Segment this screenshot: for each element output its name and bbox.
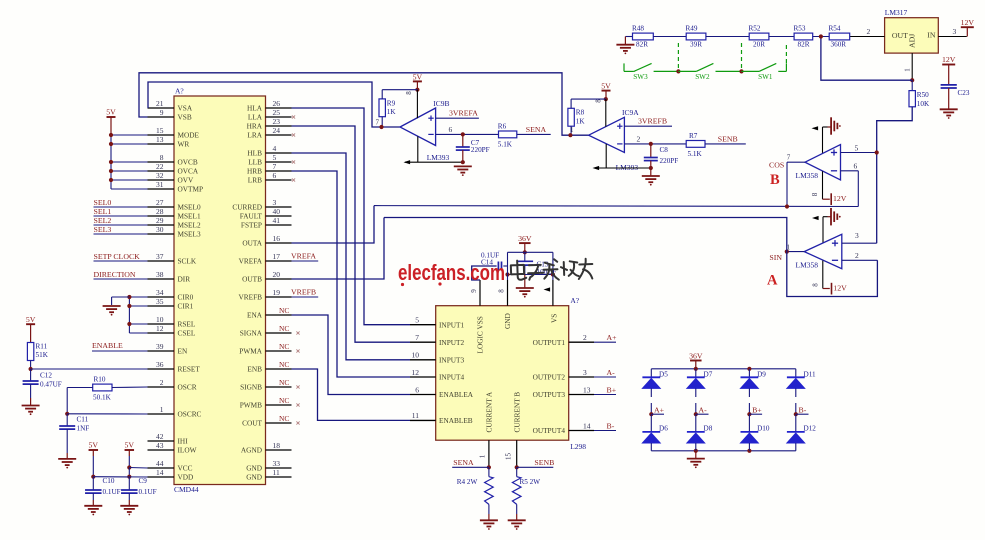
svg-text:220PF: 220PF — [660, 157, 679, 165]
svg-text:B+: B+ — [607, 385, 617, 394]
node B+ — [747, 405, 762, 416]
svg-text:35: 35 — [156, 297, 164, 306]
svg-text:R7: R7 — [689, 132, 698, 140]
svg-text:11: 11 — [412, 411, 419, 420]
wire 3VREFB from IC9A non-inverting input — [624, 117, 672, 127]
resistor R6 5.1K — [498, 122, 517, 148]
svg-text:NC: NC — [279, 324, 289, 333]
svg-text:INPUT1: INPUT1 — [439, 320, 464, 329]
svg-text:NC: NC — [279, 306, 289, 315]
regulator U? LM317 — [885, 8, 939, 53]
svg-text:22: 22 — [156, 162, 164, 171]
net label ENABLE with wire to EN — [92, 341, 148, 351]
svg-text:VSB: VSB — [178, 113, 192, 122]
svg-text:220PF: 220PF — [471, 146, 490, 154]
wire op-amp B non-inverting to R50 node — [841, 143, 879, 154]
svg-text:OVV: OVV — [178, 176, 195, 185]
svg-text:C11: C11 — [77, 416, 89, 424]
svg-text:26: 26 — [273, 99, 281, 108]
svg-text:5.1K: 5.1K — [498, 140, 513, 148]
svg-text:0.1UF: 0.1UF — [103, 488, 121, 496]
svg-text:D9: D9 — [757, 370, 766, 378]
svg-text:R11: R11 — [36, 343, 48, 351]
wire op-amp A output node SIN — [767, 244, 804, 289]
ground arrow above op-amp B — [812, 117, 841, 153]
svg-text:VREFA: VREFA — [239, 257, 263, 266]
wire ENB to ENABLEB — [292, 369, 411, 420]
net label DIRECTION with wire — [94, 270, 148, 279]
wire LM317 OUT pin 2 — [850, 27, 885, 37]
capacitor C13 100UF — [517, 252, 557, 276]
svg-text:31: 31 — [156, 180, 164, 189]
svg-text:12V: 12V — [833, 284, 847, 293]
svg-text:OSCRC: OSCRC — [178, 410, 202, 419]
wire long net OUTB to op-amp A — [384, 218, 877, 297]
switch SW1 — [742, 63, 777, 80]
capacitor C10 0.1UF — [85, 477, 121, 506]
resistor R4 2W sense — [457, 467, 494, 520]
resistor R53 82R — [794, 24, 813, 48]
svg-text:SENA: SENA — [453, 458, 474, 467]
svg-text:360R: 360R — [831, 41, 847, 49]
ground at R48 left end — [616, 37, 634, 55]
power 5V port above R11 — [26, 315, 36, 343]
svg-text:R52: R52 — [749, 24, 761, 32]
svg-text:2: 2 — [867, 27, 871, 36]
resistor R52 20R — [749, 24, 769, 48]
svg-text:VCC: VCC — [178, 464, 193, 473]
wire SENB — [705, 134, 746, 144]
svg-text:OUTPUT4: OUTPUT4 — [533, 426, 566, 435]
diode D9 — [741, 369, 767, 389]
ground for CIR pins — [103, 305, 121, 307]
power -12V at op-amp B — [811, 171, 847, 205]
wire VSB to IC9A inverting input — [139, 73, 589, 135]
svg-text:D7: D7 — [704, 370, 713, 378]
wire switch row seg4 — [716, 69, 744, 73]
dashed link SW2-R49R52 node — [741, 43, 743, 71]
resistor R49 39R — [686, 24, 706, 48]
svg-text:5: 5 — [855, 143, 859, 152]
svg-text:LLB: LLB — [248, 158, 262, 167]
wire IC9B output pin 6 — [436, 125, 499, 137]
L298 top pin names rotated — [476, 313, 559, 353]
svg-text:17: 17 — [273, 252, 281, 261]
svg-text:37: 37 — [156, 252, 164, 261]
capacitor C11 1NF — [59, 414, 89, 459]
svg-text:SIN: SIN — [769, 253, 782, 262]
svg-text:50.1K: 50.1K — [93, 394, 112, 402]
svg-text:DIR: DIR — [178, 275, 191, 284]
node R8 to IC9A output — [568, 133, 572, 137]
svg-text:D10: D10 — [757, 425, 770, 433]
svg-text:NC: NC — [279, 342, 289, 351]
resistor R10 50.1K — [67, 376, 147, 414]
svg-text:7: 7 — [376, 119, 380, 127]
svg-text:LM317: LM317 — [885, 8, 908, 17]
svg-text:OSCR: OSCR — [178, 383, 197, 392]
svg-text:8: 8 — [498, 289, 506, 293]
svg-text:INPUT4: INPUT4 — [439, 373, 464, 382]
svg-text:6: 6 — [415, 385, 419, 394]
svg-text:R50: R50 — [917, 91, 929, 99]
power 5V port above C10 — [89, 441, 99, 479]
ground under L298 rail — [516, 275, 534, 298]
node R9 to IC9B output — [379, 125, 383, 129]
svg-text:5V: 5V — [106, 108, 116, 117]
svg-text:5V: 5V — [601, 82, 611, 91]
wire 36V rail upper — [508, 251, 553, 253]
svg-text:SW1: SW1 — [758, 73, 773, 81]
diode D11 — [787, 369, 816, 389]
wire op-amp B output node COS — [769, 154, 805, 207]
svg-text:A+: A+ — [607, 333, 618, 342]
svg-text:12: 12 — [412, 368, 420, 377]
svg-text:36V: 36V — [689, 351, 703, 360]
wire diode bridge top rail — [651, 367, 796, 371]
wire D5 to node A+ — [650, 388, 652, 414]
wire HRA to INPUT2 — [292, 126, 411, 342]
svg-text:8: 8 — [811, 192, 819, 196]
wire switch row seg2 — [654, 69, 681, 73]
power 5V port top-left — [106, 108, 116, 135]
svg-text:C23: C23 — [958, 89, 970, 97]
op-amp IC9A LM393 — [570, 99, 639, 172]
wire R49-R52 — [706, 36, 749, 38]
svg-text:40: 40 — [273, 207, 281, 216]
svg-text:12V: 12V — [833, 194, 847, 203]
svg-text:R48: R48 — [632, 24, 644, 32]
diode D7 — [687, 369, 713, 389]
svg-text:CIR1: CIR1 — [178, 302, 194, 311]
svg-text:36: 36 — [156, 360, 164, 369]
svg-text:12: 12 — [156, 324, 164, 333]
svg-text:LRB: LRB — [248, 176, 262, 185]
svg-text:7: 7 — [787, 154, 791, 162]
svg-text:OUTB: OUTB — [242, 275, 262, 284]
svg-text:30: 30 — [156, 225, 164, 234]
svg-text:R8: R8 — [576, 109, 585, 117]
wire D11 to node B- — [795, 388, 797, 414]
svg-text:IC9A: IC9A — [622, 108, 639, 117]
svg-text:RSEL: RSEL — [178, 320, 196, 329]
svg-text:CIR0: CIR0 — [178, 293, 194, 302]
ground under C11 — [58, 458, 76, 460]
capacitor C7 220PF — [456, 134, 490, 162]
svg-text:CURRED: CURRED — [232, 203, 262, 212]
svg-text:MSEL2: MSEL2 — [178, 221, 201, 230]
svg-text:42: 42 — [156, 432, 164, 441]
svg-text:5V: 5V — [26, 315, 36, 324]
net label SETP CLOCK with wire — [94, 252, 148, 261]
svg-text:18: 18 — [273, 441, 281, 450]
svg-text:LOGIC VSS: LOGIC VSS — [476, 316, 485, 353]
wire R53-R54 with node to ADJ — [813, 34, 830, 38]
wire SENA — [517, 125, 551, 135]
svg-text:3: 3 — [273, 198, 277, 207]
svg-text:OVCA: OVCA — [178, 167, 199, 176]
diode D5 — [642, 369, 668, 389]
L298 right pins with output net labels — [533, 333, 618, 435]
wire 5V to MODE WR OVCB OVCA OVV OVTMP — [109, 133, 148, 189]
svg-text:6: 6 — [854, 162, 858, 171]
svg-text:9: 9 — [470, 289, 478, 293]
svg-text:ENABLE: ENABLE — [92, 341, 123, 350]
svg-text:2: 2 — [637, 134, 641, 143]
svg-text:27: 27 — [156, 198, 164, 207]
svg-text:D5: D5 — [659, 370, 668, 378]
svg-text:CMD44: CMD44 — [174, 485, 199, 494]
svg-text:8: 8 — [812, 283, 820, 287]
wire VDD rail — [93, 476, 147, 478]
svg-text:21: 21 — [156, 99, 164, 108]
svg-text:D11: D11 — [804, 370, 817, 378]
net label VREFA with wire — [291, 251, 318, 261]
svg-text:C12: C12 — [40, 372, 52, 380]
svg-text:HLB: HLB — [247, 149, 262, 158]
wire D7 to node A- — [695, 388, 697, 414]
power 5V port above C9 — [125, 441, 135, 479]
svg-text:5V: 5V — [125, 441, 135, 450]
svg-text:39: 39 — [156, 342, 164, 351]
svg-text:R6: R6 — [498, 122, 507, 130]
svg-text:ADJ: ADJ — [908, 34, 917, 48]
svg-text:OVCB: OVCB — [178, 158, 198, 167]
wire LM317 IN pin 3 to 12V — [938, 27, 967, 37]
dashed link SW1-R52R53 node — [785, 45, 787, 63]
svg-text:VSA: VSA — [178, 104, 193, 113]
resistor R9 1K — [379, 90, 417, 127]
svg-text:R53: R53 — [794, 24, 806, 32]
wire R11 to RESET pin — [29, 361, 148, 372]
svg-text:PWMA: PWMA — [239, 347, 262, 356]
wire VSA to IC9B inverting input — [148, 82, 400, 127]
svg-text:MSEL1: MSEL1 — [178, 212, 201, 221]
svg-text:R5 2W: R5 2W — [520, 478, 541, 486]
svg-text:INPUT3: INPUT3 — [439, 355, 464, 364]
svg-text:33: 33 — [273, 459, 281, 468]
svg-text:IHI: IHI — [178, 437, 189, 446]
svg-text:D12: D12 — [804, 425, 817, 433]
ground under R5 — [508, 519, 526, 521]
svg-text:SEL0: SEL0 — [94, 198, 112, 207]
svg-text:1K: 1K — [576, 117, 586, 125]
power 5V port at IC9A — [595, 82, 612, 103]
svg-text:SCLK: SCLK — [178, 257, 197, 266]
wire VS pin riser — [544, 252, 553, 305]
wire CURRENT B to sense node — [505, 440, 519, 469]
ground under diode bridge — [687, 451, 705, 468]
svg-text:DIRECTION: DIRECTION — [94, 270, 136, 279]
ground under C10 — [84, 505, 102, 507]
svg-text:1: 1 — [904, 68, 912, 72]
net label VREFB with wire — [291, 287, 318, 297]
wire ADJ feedback to R53 R54 node — [821, 37, 912, 81]
power 5V port at IC9B — [405, 73, 423, 95]
ground under C7 — [454, 165, 472, 167]
svg-text:8: 8 — [160, 153, 164, 162]
diode D10 — [741, 414, 770, 451]
svg-text:LM358: LM358 — [796, 171, 819, 180]
svg-text:15: 15 — [505, 453, 513, 461]
svg-text:SENA: SENA — [526, 125, 547, 134]
svg-text:ENABLEB: ENABLEB — [439, 416, 473, 425]
switch SW3 — [624, 63, 652, 80]
svg-text:0.1UF: 0.1UF — [139, 488, 157, 496]
svg-text:R10: R10 — [94, 376, 106, 384]
svg-text:elecfans.com: elecfans.com — [398, 260, 505, 285]
wire ENA to ENABLEA — [292, 315, 411, 395]
svg-text:FSTEP: FSTEP — [241, 221, 262, 230]
CMD44 left pins with numbers — [148, 99, 204, 482]
ground under R4 — [480, 519, 498, 521]
net label SENB with wire — [517, 458, 555, 467]
svg-text:20: 20 — [273, 270, 281, 279]
resistor R48 82R — [632, 24, 653, 48]
diode D6 — [642, 414, 668, 451]
wire op-amp A feedback pin 2 — [842, 251, 878, 260]
wire R52-R53 — [769, 36, 794, 38]
svg-text:NC: NC — [279, 396, 289, 405]
svg-text:L298: L298 — [570, 442, 586, 451]
svg-text:OUTPUT3: OUTPUT3 — [533, 390, 566, 399]
svg-text:82R: 82R — [636, 41, 648, 49]
wire R48-R49 — [653, 36, 686, 38]
resistor R7 5.1K — [686, 132, 705, 158]
net labels SEL0-SEL3 with wires — [94, 198, 148, 234]
wire OUTB riser — [292, 218, 385, 280]
svg-text:C10: C10 — [103, 477, 115, 485]
ground arrow above op-amp A — [812, 208, 841, 243]
wire long net OUTA to op-amp B — [374, 204, 858, 208]
svg-text:A+: A+ — [654, 405, 665, 414]
svg-text:CURRENT B: CURRENT B — [513, 392, 522, 433]
svg-text:1NF: 1NF — [77, 425, 90, 433]
svg-text:24: 24 — [273, 126, 281, 135]
resistor R54 360R — [829, 24, 850, 48]
node A- — [694, 405, 709, 416]
svg-text:SEL3: SEL3 — [94, 225, 112, 234]
svg-text:GND: GND — [246, 464, 262, 473]
svg-text:25: 25 — [273, 108, 281, 117]
svg-text:3: 3 — [583, 368, 587, 377]
capacitor C8 220PF — [644, 144, 678, 168]
no-connect x marks on unused CMD44 pins — [292, 115, 300, 424]
wire HLB to INPUT3 — [292, 153, 411, 360]
svg-text:9: 9 — [160, 108, 164, 117]
svg-text:SEL1: SEL1 — [94, 207, 112, 216]
svg-text:2: 2 — [160, 378, 164, 387]
svg-text:ILOW: ILOW — [178, 446, 197, 455]
ground under C9 — [120, 505, 138, 507]
svg-text:MSEL3: MSEL3 — [178, 230, 201, 239]
elecfans watermark — [398, 260, 505, 286]
svg-text:14: 14 — [156, 468, 164, 477]
svg-text:41: 41 — [273, 216, 281, 225]
svg-text:3: 3 — [855, 231, 859, 240]
svg-text:OUTA: OUTA — [242, 239, 262, 248]
svg-text:NC: NC — [279, 414, 289, 423]
svg-text:SETP CLOCK: SETP CLOCK — [94, 252, 141, 261]
wire R50 to op-amp non-inverting inputs — [877, 107, 913, 243]
svg-text:ENB: ENB — [247, 365, 262, 374]
svg-text:10: 10 — [156, 315, 164, 324]
svg-text:7: 7 — [415, 333, 419, 342]
svg-text:2: 2 — [583, 333, 587, 342]
svg-text:OUTPUT1: OUTPUT1 — [533, 338, 566, 347]
svg-text:1: 1 — [570, 126, 574, 134]
svg-text:HLA: HLA — [247, 104, 263, 113]
svg-text:13: 13 — [156, 135, 164, 144]
IC A? L298 body — [436, 296, 587, 451]
svg-text:36V: 36V — [518, 234, 532, 243]
ground under C23 — [940, 108, 958, 110]
svg-text:A?: A? — [175, 87, 184, 96]
capacitor C23 with 12V port — [941, 55, 970, 109]
svg-text:3: 3 — [953, 27, 957, 36]
svg-text:10: 10 — [412, 351, 420, 360]
svg-text:R54: R54 — [829, 24, 841, 32]
L298 bottom pin names rotated — [485, 391, 522, 432]
svg-text:23: 23 — [273, 117, 281, 126]
wire 3VREFA from IC9B non-inverting input — [436, 109, 479, 119]
svg-text:IN: IN — [927, 31, 936, 40]
node B- — [794, 405, 809, 416]
svg-text:FAULT: FAULT — [240, 212, 263, 221]
svg-text:5V: 5V — [413, 73, 423, 82]
ground under C12 — [22, 405, 40, 407]
svg-text:OVTMP: OVTMP — [178, 185, 204, 194]
wire VCC rail — [129, 467, 147, 470]
capacitor C9 0.1UF — [121, 477, 157, 506]
svg-text:IC9B: IC9B — [433, 99, 449, 108]
svg-text:32: 32 — [156, 171, 164, 180]
resistor R5 2W sense — [512, 467, 540, 520]
svg-text:RESET: RESET — [178, 365, 201, 374]
svg-text:R49: R49 — [686, 24, 698, 32]
svg-text:HRB: HRB — [247, 167, 262, 176]
svg-text:GND: GND — [246, 473, 262, 482]
capacitor C12 0.47UF — [23, 369, 62, 405]
svg-text:39R: 39R — [690, 41, 702, 49]
svg-text:VS: VS — [549, 314, 558, 323]
ground under C8 — [642, 168, 660, 186]
svg-text:51K: 51K — [36, 351, 49, 359]
svg-text:EN: EN — [178, 347, 188, 356]
node A+ — [649, 405, 664, 416]
svg-text:AGND: AGND — [241, 446, 262, 455]
svg-text:C8: C8 — [660, 146, 669, 154]
resistor R50 10K — [909, 80, 930, 108]
svg-text:ENA: ENA — [247, 311, 263, 320]
svg-text:CURRENT A: CURRENT A — [485, 391, 494, 432]
svg-text:B-: B- — [607, 421, 615, 430]
svg-text:4: 4 — [273, 144, 277, 153]
resistor R11 51K — [27, 343, 48, 361]
op-amp B LM358 COS — [796, 145, 841, 181]
svg-text:C9: C9 — [139, 477, 148, 485]
svg-text:5: 5 — [415, 316, 419, 325]
op-amp IC9B LM393 — [376, 90, 450, 163]
power 36V port at diode bridge — [689, 351, 703, 369]
svg-text:3VREFA: 3VREFA — [449, 109, 478, 118]
wire diode bridge bottom rail — [651, 449, 796, 453]
svg-text:A-: A- — [607, 368, 616, 377]
svg-text:LLA: LLA — [248, 113, 263, 122]
power -12V at op-amp A — [812, 261, 848, 295]
svg-text:R4 2W: R4 2W — [457, 478, 478, 486]
svg-text:B-: B- — [799, 405, 807, 414]
